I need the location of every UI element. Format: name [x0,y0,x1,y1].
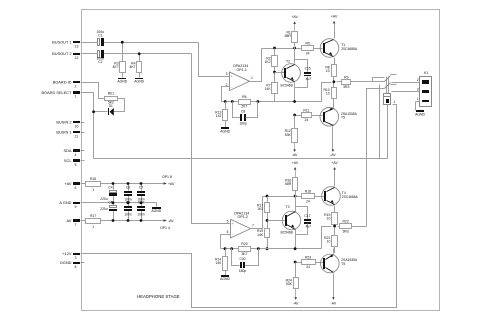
svg-text:AGND: AGND [415,112,425,116]
svg-text:24: 24 [306,199,310,203]
svg-text:6: 6 [227,230,229,234]
svg-text:-AV: -AV [292,153,298,157]
svg-text:C7: C7 [139,185,143,189]
svg-text:11: 11 [75,134,79,138]
svg-text:2SC4686A: 2SC4686A [341,47,358,51]
svg-text:2: 2 [417,78,419,82]
svg-text:AGND: AGND [151,209,161,213]
svg-text:+AV: +AV [292,161,299,165]
svg-text:14K: 14K [257,233,264,237]
svg-text:10: 10 [326,69,330,73]
svg-text:-: - [232,232,233,236]
svg-text:100n: 100n [137,197,145,201]
svg-text:1: 1 [251,76,253,80]
svg-text:-AV: -AV [65,218,72,223]
svg-text:+AV: +AV [331,161,338,165]
svg-text:3R3: 3R3 [343,85,349,89]
svg-text:10: 10 [327,239,331,243]
svg-text:1K2: 1K2 [265,60,271,64]
svg-text:OP1 8: OP1 8 [162,175,172,179]
svg-text:K1: K1 [424,71,428,75]
svg-text:SCL: SCL [64,158,72,163]
svg-text:53K: 53K [286,282,293,286]
svg-text:-AV: -AV [330,153,336,157]
svg-text:13: 13 [75,45,79,49]
svg-text:1K2: 1K2 [257,207,263,211]
svg-text:RE1: RE1 [108,92,115,96]
svg-text:3: 3 [226,72,228,76]
svg-text:180p: 180p [239,269,247,273]
svg-text:3K7: 3K7 [241,252,247,256]
svg-text:R18: R18 [305,189,311,193]
svg-text:-AV: -AV [331,301,337,305]
svg-text:R5: R5 [306,41,310,45]
svg-text:OP1 4: OP1 4 [160,226,170,230]
svg-text:68R: 68R [285,34,292,38]
svg-text:C15: C15 [305,67,311,71]
svg-text:7: 7 [252,223,254,227]
svg-text:1: 1 [92,188,94,192]
svg-text:100n: 100n [124,213,132,217]
svg-text:100n: 100n [137,213,145,217]
svg-text:2SC4686A: 2SC4686A [342,195,359,199]
svg-text:BUSIN 1: BUSIN 1 [56,129,71,134]
svg-text:12: 12 [75,56,79,60]
svg-text:-AV: -AV [293,301,299,305]
svg-text:BC546B: BC546B [281,84,294,88]
svg-text:R20: R20 [241,242,247,246]
svg-text:+AV: +AV [331,15,338,19]
svg-text:D1: D1 [109,104,113,108]
svg-text:SDA: SDA [64,148,72,153]
svg-text:+AV: +AV [64,181,72,186]
svg-text:AGND: AGND [134,80,144,84]
svg-text:C4: C4 [108,185,112,189]
svg-text:+AV: +AV [291,15,298,19]
svg-text:24: 24 [306,51,310,55]
svg-text:68R: 68R [285,182,292,186]
svg-text:1: 1 [393,100,395,104]
svg-text:C6: C6 [126,185,130,189]
svg-text:4K7: 4K7 [113,65,119,69]
svg-text:24: 24 [306,265,310,269]
svg-text:AGND: AGND [117,80,127,84]
svg-text:R9: R9 [344,75,348,79]
svg-text:4u7: 4u7 [305,224,311,228]
svg-text:R23: R23 [305,255,311,259]
svg-text:2K7: 2K7 [241,105,247,109]
svg-text:BUSOUT 1: BUSOUT 1 [52,40,71,45]
svg-text:14K: 14K [265,87,272,91]
svg-text:C2: C2 [98,60,102,64]
svg-text:+: + [231,75,233,79]
svg-text:6: 6 [75,186,77,190]
svg-text:R17: R17 [90,214,96,218]
svg-text:-: - [231,85,232,89]
svg-text:8: 8 [75,265,77,269]
svg-text:4K7: 4K7 [129,65,135,69]
svg-text:HEADPHONE STAGE: HEADPHONE STAGE [137,294,180,299]
svg-text:1: 1 [75,95,77,99]
svg-text:180p: 180p [239,122,247,126]
svg-text:C5: C5 [108,201,112,205]
svg-text:R22: R22 [342,220,348,224]
svg-text:+: + [232,222,234,226]
svg-text:+AV: +AV [168,182,175,186]
svg-text:R6: R6 [242,95,246,99]
svg-text:C17: C17 [304,214,310,218]
svg-text:OP1-1: OP1-1 [237,68,247,72]
svg-text:R15: R15 [90,177,96,181]
svg-text:C8: C8 [241,109,245,113]
svg-text:AGND: AGND [220,277,230,281]
svg-text:2: 2 [75,85,77,89]
svg-text:3R3: 3R3 [342,229,348,233]
svg-text:220u: 220u [100,207,108,211]
svg-text:C1: C1 [98,34,102,38]
svg-text:BOARD SELECT: BOARD SELECT [41,90,72,95]
svg-text:T2: T2 [286,60,290,64]
svg-text:T3: T3 [286,205,290,209]
svg-text:A GND: A GND [59,200,71,205]
svg-text:1: 1 [417,97,419,101]
svg-text:4: 4 [75,153,77,157]
svg-text:4u7: 4u7 [306,77,312,81]
svg-text:T5: T5 [341,262,345,266]
svg-text:1: 1 [92,225,94,229]
svg-text:+12V: +12V [62,251,72,256]
svg-text:-AV: -AV [168,219,174,223]
svg-text:5: 5 [227,220,229,224]
svg-text:BUSOUT 2: BUSOUT 2 [52,51,71,56]
svg-text:7: 7 [75,223,77,227]
svg-text:100n: 100n [124,197,132,201]
svg-text:142: 142 [216,114,222,118]
svg-text:9: 9 [75,205,77,209]
svg-text:5: 5 [75,163,77,167]
svg-text:BC546B: BC546B [281,231,294,235]
svg-text:24: 24 [305,118,309,122]
svg-text:10: 10 [326,92,330,96]
svg-text:53K: 53K [285,133,292,137]
svg-text:3: 3 [417,88,419,92]
svg-text:OP1-2: OP1-2 [238,215,248,219]
svg-text:10: 10 [75,124,79,128]
svg-text:3: 3 [75,256,77,260]
svg-text:DGND: DGND [60,260,72,265]
svg-text:220u: 220u [100,197,108,201]
svg-text:R11: R11 [303,108,309,112]
svg-text:BUSIN 2: BUSIN 2 [56,119,71,124]
svg-text:140: 140 [216,261,222,265]
svg-text:BOARD ID: BOARD ID [53,80,72,85]
svg-text:T5: T5 [341,115,345,119]
svg-text:AGND: AGND [220,129,230,133]
svg-text:C20: C20 [239,257,245,261]
svg-text:10: 10 [327,216,331,220]
